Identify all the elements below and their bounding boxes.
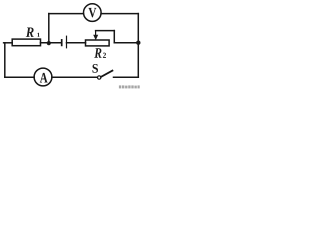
battery cell short plate [61, 40, 63, 46]
ammeter A [34, 68, 52, 86]
wire slider up-right [96, 30, 115, 32]
label R1 [26, 28, 34, 37]
wire R1 to battery [41, 42, 62, 44]
wire slider branch down [113, 31, 115, 43]
wire V to right corner [101, 13, 138, 15]
node junction dot right [136, 41, 140, 45]
battery cell long plate [66, 36, 68, 48]
wire A to switch [52, 76, 98, 78]
wire mid left stub [4, 42, 13, 44]
rheostat R2 slider arrowhead [93, 35, 98, 41]
resistor R1 [12, 39, 40, 46]
wire slider branch to right node [114, 42, 138, 44]
wire right vertical [137, 14, 139, 78]
watermark tiny gray text [119, 85, 140, 88]
switch S pivot [98, 76, 101, 79]
wire V-branch top left [49, 13, 84, 15]
rheostat R2 box [86, 40, 110, 46]
rheostat R2 slider arrow [95, 31, 97, 36]
label R2 [94, 48, 101, 57]
node junction dot left (after R1) [47, 41, 51, 45]
wire V-branch vertical [48, 14, 50, 43]
label S [93, 64, 98, 73]
wire left vertical [4, 43, 6, 77]
switch S lever [101, 71, 113, 77]
wire battery to R2 [67, 42, 86, 44]
wire switch to right corner [114, 76, 139, 78]
voltmeter V [84, 4, 102, 22]
wire bottom left [5, 76, 34, 78]
